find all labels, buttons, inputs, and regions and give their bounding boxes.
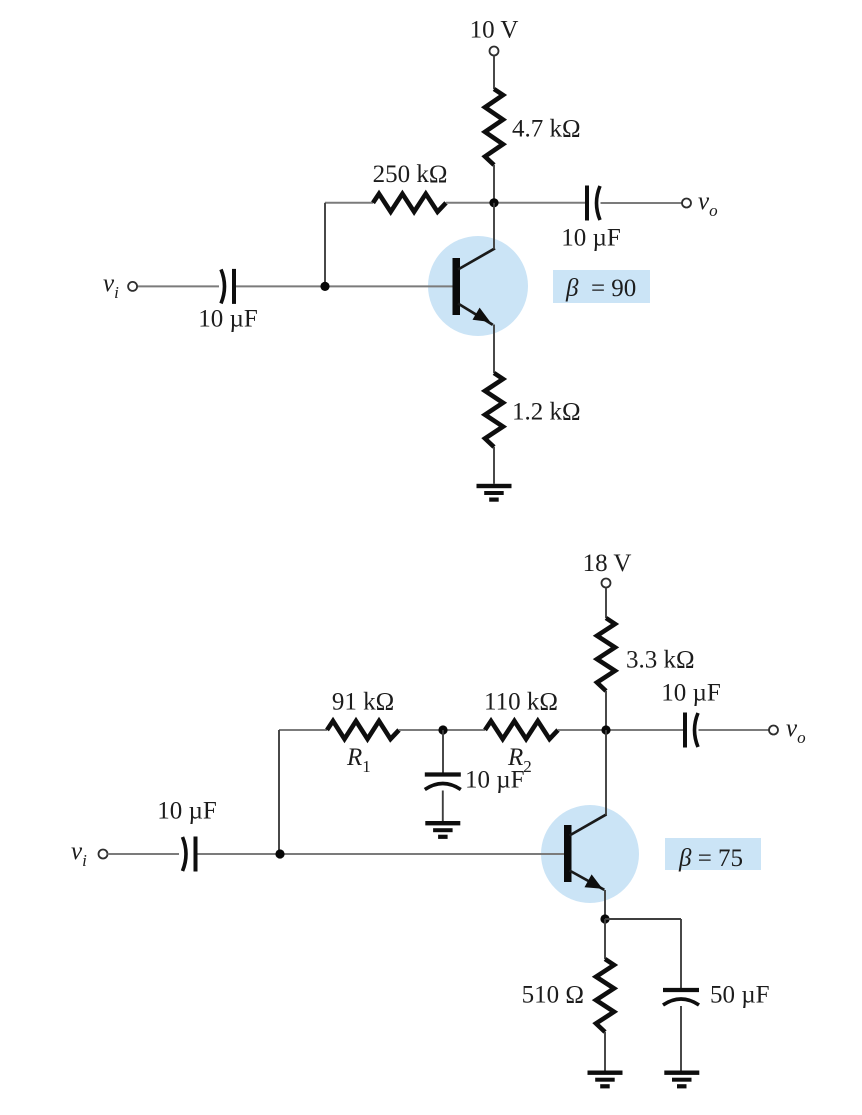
svg-text:1.2 kΩ: 1.2 kΩ — [512, 399, 581, 426]
svg-text:91 kΩ: 91 kΩ — [332, 689, 394, 716]
svg-text:250 kΩ: 250 kΩ — [373, 161, 448, 188]
svg-text:3.3 kΩ: 3.3 kΩ — [626, 647, 695, 674]
svg-text:10 µF: 10 µF — [661, 680, 721, 707]
svg-text:β = 75: β = 75 — [678, 845, 743, 872]
svg-text:10 V: 10 V — [470, 17, 519, 44]
svg-text:50 µF: 50 µF — [710, 982, 770, 1009]
svg-text:110 kΩ: 110 kΩ — [484, 689, 558, 716]
svg-text:10 µF: 10 µF — [561, 225, 621, 252]
svg-text:10 µF: 10 µF — [198, 306, 258, 333]
svg-text:10 µF: 10 µF — [157, 798, 217, 825]
svg-text:β = 90: β = 90 — [565, 275, 636, 302]
svg-text:18 V: 18 V — [583, 550, 632, 577]
svg-text:510 Ω: 510 Ω — [522, 982, 584, 1009]
svg-text:4.7 kΩ: 4.7 kΩ — [512, 116, 581, 143]
